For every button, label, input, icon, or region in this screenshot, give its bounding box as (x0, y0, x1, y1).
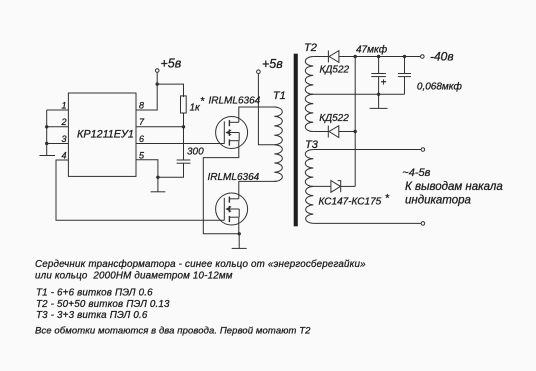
wire T3 bottom to terminal (313, 222, 421, 224)
wire T3 top to terminal (313, 149, 421, 151)
svg-text:+: + (381, 78, 387, 89)
svg-text:3: 3 (62, 134, 67, 144)
vertical bus D1-D2-zener (354, 57, 356, 187)
svg-text:Т2 - 50+50 витков ПЭЛ 0.13: Т2 - 50+50 витков ПЭЛ 0.13 (36, 299, 170, 310)
capacitor C3 0,068мкф wires (404, 57, 406, 74)
resistor R1 1к (181, 96, 187, 113)
zener diode VD3 КС147-КС175 (331, 181, 341, 193)
transformer T3 winding upper half (305, 150, 313, 187)
wire D2 to bus (339, 131, 355, 133)
wire left input bus (46, 110, 48, 156)
wire T2 bottom to D2 (313, 131, 328, 133)
svg-text:Т1: Т1 (273, 90, 286, 102)
wire resistor bottom to pin7 node (183, 113, 185, 160)
wire +5v to resistor top (157, 84, 183, 97)
node junction sources/ground (238, 232, 241, 235)
wire T3 center tap to zener (313, 185, 331, 187)
svg-text:300: 300 (187, 147, 204, 158)
node junction pin5/C1/ground (156, 176, 159, 179)
svg-text:КД522: КД522 (319, 113, 349, 124)
node junction pin2 bus (45, 125, 48, 128)
node junction bus top (354, 55, 357, 58)
diode D1 КД522 (328, 51, 339, 63)
svg-text:+5в: +5в (262, 57, 283, 71)
wire pin 5 stub (136, 160, 158, 178)
transformer T1 primary winding upper half (274, 107, 282, 145)
svg-text:Т3: Т3 (305, 139, 319, 151)
wire +5v to T1 center tap (258, 74, 274, 145)
node junction C3 top (403, 55, 406, 58)
svg-text:+5в: +5в (161, 56, 182, 70)
ground MOSFET sources (232, 234, 247, 249)
wire zener to bus (341, 185, 356, 187)
svg-text:*: * (200, 96, 205, 108)
wire T2 center tap (313, 93, 404, 95)
node junction pin3 bus (45, 142, 48, 145)
wire Q1 source loop to ground node (203, 141, 239, 234)
capacitor C1 300 (177, 160, 191, 163)
svg-text:47мкф: 47мкф (356, 43, 388, 55)
svg-text:0,068мкф: 0,068мкф (417, 81, 463, 93)
svg-text:Все обмотки мотаются в два про: Все обмотки мотаются в два провода. Перв… (35, 325, 311, 336)
svg-text:IRLML6364: IRLML6364 (209, 95, 261, 106)
wire Q2 source to ground node (238, 217, 240, 234)
terminal +5в left (155, 69, 159, 73)
capacitor C2 47мкф wires (378, 57, 380, 74)
svg-text:-40в: -40в (430, 50, 454, 64)
wire pin 4 to Q2 gate (56, 160, 224, 220)
transformer T1 core (294, 54, 298, 227)
svg-text:4: 4 (62, 150, 67, 160)
svg-text:~4-5в: ~4-5в (402, 167, 430, 179)
wire C2 bottom (378, 77, 380, 95)
terminal filament top (421, 148, 425, 152)
svg-text:Т2: Т2 (304, 42, 317, 54)
capacitor C3 0,068мкф plates (398, 74, 411, 77)
transformer T2 winding lower half (305, 94, 313, 131)
terminal filament bottom (421, 222, 425, 226)
svg-text:7: 7 (139, 117, 145, 127)
wire capacitor C1 bottom (158, 163, 184, 177)
wire pin 7 stub (136, 126, 184, 128)
terminal -40в (421, 55, 425, 59)
IC U1 КР1211ЕУ1 body (68, 93, 136, 176)
wire pin 6 to Q1 gate (136, 143, 224, 145)
svg-text:Т3 - 3+3 витка ПЭЛ 0.6: Т3 - 3+3 витка ПЭЛ 0.6 (36, 310, 148, 321)
wire C3 bottom to center tap line (404, 77, 406, 95)
wire pin 2 stub (47, 126, 69, 128)
svg-text:Сердечник трансформатора - син: Сердечник трансформатора - синее кольцо … (35, 259, 366, 270)
svg-text:2: 2 (61, 117, 67, 127)
node junction +5v / resistor feed (156, 82, 159, 85)
wire D1 to -40v rail (339, 56, 420, 58)
svg-text:5: 5 (139, 150, 145, 160)
svg-text:8: 8 (139, 100, 144, 110)
wire Q2 drain to T1 bottom (239, 181, 277, 198)
node junction pin7/resistor (182, 125, 185, 128)
transformer T1 primary winding lower half (274, 145, 282, 182)
svg-text:IRLML6364: IRLML6364 (208, 172, 260, 183)
transistor Q2 IRLML6364 (lower) (216, 193, 248, 225)
ground C2 (370, 94, 388, 108)
svg-text:*: * (385, 193, 390, 205)
node junction D2 bus (354, 130, 357, 133)
svg-text:КС147-КС175: КС147-КС175 (319, 197, 382, 208)
svg-text:КД522: КД522 (320, 65, 350, 76)
terminal +5в right (257, 70, 261, 74)
diode D2 КД522 (328, 126, 339, 138)
svg-text:6: 6 (139, 134, 144, 144)
wire pin 3 stub (47, 143, 69, 145)
node junction C2 top (377, 55, 380, 58)
svg-text:индикатора: индикатора (405, 195, 471, 207)
wire Q1 drain to T1 top (239, 107, 277, 122)
svg-text:К выводам накала: К выводам накала (405, 181, 503, 193)
capacitor C2 47мкф plates (371, 74, 386, 77)
transistor Q1 IRLML6364 (upper) (216, 117, 248, 149)
transformer T2 winding upper half (305, 57, 313, 95)
svg-text:КР1211ЕУ1: КР1211ЕУ1 (77, 129, 134, 141)
ground pin5 node (151, 177, 166, 192)
wire pin 1 stub (47, 109, 69, 111)
svg-text:или кольцо 2000НМ диаметром 1: или кольцо 2000НМ диаметром 10-12мм (35, 270, 233, 281)
wire T2 top to D1 (313, 56, 328, 58)
ground left bus (40, 155, 56, 157)
transformer T3 winding lower half (306, 186, 314, 223)
node junction C2 bottom (377, 93, 380, 96)
wire pin 8 to +5v (136, 73, 157, 111)
svg-text:Т1 - 6+6 витков ПЭЛ 0.6: Т1 - 6+6 витков ПЭЛ 0.6 (36, 288, 153, 299)
svg-text:1: 1 (62, 100, 67, 110)
